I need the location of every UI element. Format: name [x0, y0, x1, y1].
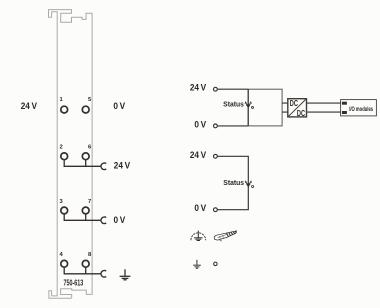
I/O modules box	[341, 100, 377, 116]
icon earth small	[193, 260, 201, 269]
terminal 0V s2	[214, 208, 218, 212]
module outline 750-613	[49, 10, 93, 299]
svg-text:6: 6	[88, 145, 92, 151]
jumper contact clamp row2	[101, 163, 106, 170]
svg-text:DC: DC	[290, 99, 298, 108]
svg-text:3: 3	[60, 199, 64, 205]
svg-text:0 V: 0 V	[194, 203, 206, 213]
wire bus row3	[64, 214, 101, 220]
wire 0V rail s1	[218, 125, 249, 127]
svg-text:24 V: 24 V	[114, 160, 131, 170]
icon DIN rail (3D)	[214, 231, 236, 241]
jumper contact clamp row4	[101, 271, 106, 278]
power supply box s1	[248, 89, 282, 126]
pin 5	[82, 106, 89, 113]
svg-text:0 V: 0 V	[114, 215, 126, 225]
pin 4	[61, 260, 68, 267]
svg-text:2: 2	[60, 145, 63, 151]
wire L s2	[218, 156, 249, 209]
wires DC/DC to I/O modules	[307, 103, 341, 112]
wire bus row2	[64, 160, 101, 167]
pin 1	[61, 106, 68, 113]
icon ring-feed earth (dashed arc over ground)	[191, 231, 206, 241]
svg-text:0 V: 0 V	[113, 101, 125, 111]
terminal 24V s2	[214, 154, 218, 158]
icon terminal point circle	[214, 262, 218, 266]
svg-text:7: 7	[88, 199, 91, 205]
svg-text:750-613: 750-613	[64, 280, 84, 288]
svg-text:Status: Status	[223, 180, 244, 187]
svg-text:4: 4	[60, 252, 64, 258]
svg-text:DC: DC	[297, 109, 305, 118]
svg-text:0 V: 0 V	[194, 119, 206, 129]
pin 8	[82, 260, 89, 267]
svg-text:1: 1	[60, 97, 64, 103]
svg-text:Status: Status	[223, 101, 244, 108]
terminal 0V s1	[214, 124, 218, 128]
pin 7	[82, 207, 89, 214]
status LED s2	[245, 181, 254, 188]
svg-text:8: 8	[88, 252, 92, 258]
wire bus row4	[64, 267, 101, 274]
svg-text:24 V: 24 V	[21, 101, 38, 111]
pin 3	[61, 207, 68, 214]
ground symbol row4	[120, 269, 131, 280]
status LED s1	[245, 101, 254, 108]
svg-text:24 V: 24 V	[190, 150, 207, 160]
jumper contact clamp row3	[101, 217, 106, 224]
svg-text:24 V: 24 V	[190, 82, 207, 92]
svg-text:I/O modules: I/O modules	[349, 106, 373, 113]
DC/DC converter	[288, 99, 307, 119]
wire stubs to DC/DC	[282, 103, 288, 112]
pin 6	[82, 153, 89, 160]
pin 2	[61, 153, 68, 160]
terminal 24V s1	[214, 87, 218, 91]
wire 24V rail s1	[218, 88, 249, 90]
wire status branch s1	[247, 89, 249, 126]
svg-text:5: 5	[88, 97, 92, 103]
